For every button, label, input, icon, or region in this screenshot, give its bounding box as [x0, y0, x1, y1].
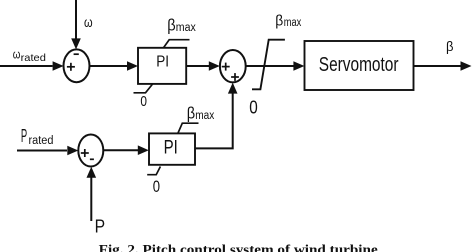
arrowhead into S2 [209, 61, 220, 71]
svg-text:rated: rated [21, 52, 46, 64]
arrowhead omega into S1 [71, 38, 81, 49]
node P_rated label [21, 126, 54, 147]
svg-text:max: max [195, 110, 214, 122]
svg-text:β: β [446, 38, 454, 54]
arrowhead into PI1 [127, 61, 138, 71]
wire S3 to PI2 [103, 149, 138, 151]
S2 left plus sign [222, 63, 230, 71]
svg-text:PI: PI [164, 138, 178, 159]
svg-text:P: P [95, 217, 106, 237]
svg-text:ω: ω [13, 47, 21, 62]
saturation limiter N1 [252, 40, 285, 90]
arrowhead P into S3 [87, 167, 97, 178]
wire S2 to Servomotor through limiter [246, 65, 294, 67]
U2 beta_max upper-limit label [187, 105, 215, 123]
wire omega_rated input [0, 65, 53, 67]
summing junction S3 [78, 135, 103, 167]
svg-text:PI: PI [156, 54, 169, 71]
U1 lower limit mark [134, 84, 153, 93]
summing junction S2 [220, 50, 246, 82]
U1 beta_max upper-limit label [167, 17, 196, 35]
svg-text:β: β [187, 105, 195, 123]
svg-text:0: 0 [249, 98, 257, 118]
svg-text:β: β [275, 13, 283, 30]
arrowhead output [461, 61, 472, 71]
S1 plus sign [67, 63, 75, 71]
N1 beta_max upper-limit label [275, 13, 301, 30]
U2 lower limit mark [147, 167, 160, 175]
svg-text:Servomotor: Servomotor [319, 54, 399, 76]
PI controller U1 box [138, 48, 186, 84]
svg-text:Fig. 2. Pitch control system o: Fig. 2. Pitch control system of wind tur… [99, 242, 378, 252]
S1 minus sign [74, 53, 79, 55]
svg-text:P: P [21, 126, 27, 146]
svg-text:0: 0 [153, 177, 160, 196]
wire PI1 to S2 [186, 65, 209, 67]
wire P_rated input [17, 150, 67, 152]
svg-text:max: max [284, 17, 302, 29]
svg-text:ω: ω [84, 15, 93, 30]
wire omega input (vertical from top) [75, 0, 77, 40]
arrowhead into summing junction S1 [53, 61, 64, 71]
wire S1 to PI1 [90, 65, 128, 67]
svg-text:0: 0 [140, 93, 147, 110]
svg-text:max: max [176, 22, 196, 34]
summing junction S1 [64, 49, 90, 82]
svg-text:β: β [167, 17, 175, 35]
S3 minus sign [90, 158, 94, 160]
wire Servomotor output [414, 65, 461, 67]
wire P input (vertical from bottom) [90, 177, 92, 221]
arrowhead PI2 into S2 bottom [228, 83, 238, 94]
Servomotor block U3 [305, 41, 414, 90]
U2 upper limit mark [178, 123, 199, 133]
svg-text:rated: rated [29, 135, 54, 147]
S3 plus sign [81, 149, 89, 157]
U1 upper limit mark [163, 40, 189, 48]
wire PI2 output to S2 (right then up) [195, 94, 233, 149]
arrowhead into Servomotor [293, 61, 304, 71]
S2 bottom plus sign [231, 73, 239, 81]
PI controller U2 box [149, 133, 195, 164]
node omega_rated label [13, 47, 46, 65]
arrowhead into PI2 [138, 145, 149, 155]
arrowhead into summing junction S3 [67, 146, 78, 156]
